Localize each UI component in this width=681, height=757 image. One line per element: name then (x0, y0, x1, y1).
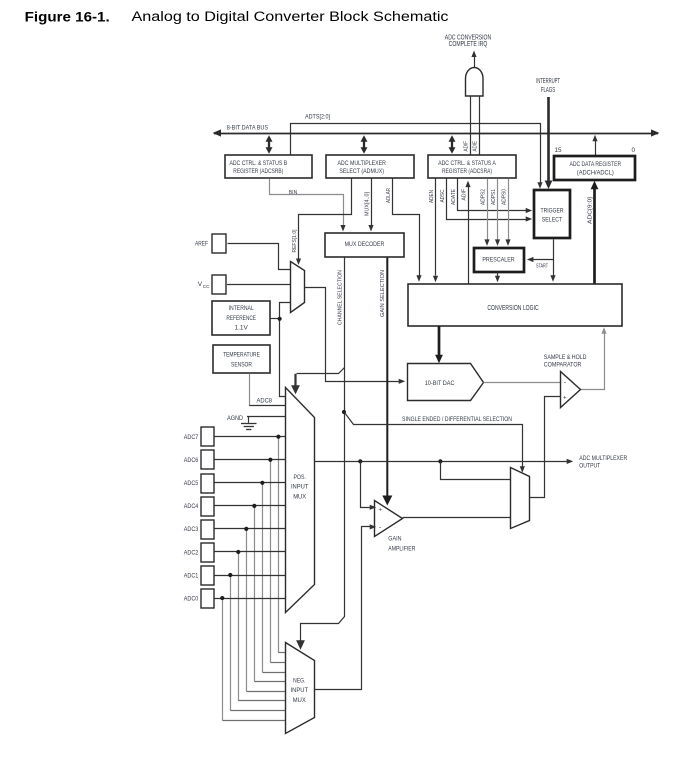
svg-text:MUX DECODER: MUX DECODER (345, 241, 385, 248)
svg-text:ADC DATA REGISTER: ADC DATA REGISTER (570, 161, 622, 168)
svg-text:ADC1: ADC1 (184, 572, 199, 579)
svg-text:MUX: MUX (293, 697, 307, 704)
svg-text:ADC8: ADC8 (257, 397, 273, 404)
svg-text:TEMPERATURE: TEMPERATURE (223, 351, 260, 358)
svg-text:AREF: AREF (195, 241, 208, 248)
svg-text:SELECT (ADMUX): SELECT (ADMUX) (339, 168, 384, 175)
svg-text:ADPS1: ADPS1 (491, 189, 497, 205)
svg-text:ADLAR: ADLAR (386, 188, 392, 203)
svg-text:REGISTER (ADCSRB): REGISTER (ADCSRB) (233, 168, 283, 175)
svg-text:INTERRUPT: INTERRUPT (536, 78, 560, 85)
svg-text:ADSC: ADSC (440, 189, 446, 202)
svg-text:(ADCH/ADCL): (ADCH/ADCL) (577, 170, 614, 177)
svg-text:REFS[1:0]: REFS[1:0] (292, 229, 298, 253)
svg-text:1.1V: 1.1V (235, 324, 249, 331)
svg-text:MUX: MUX (293, 493, 307, 500)
svg-text:Figure 16-1.: Figure 16-1. (25, 9, 110, 24)
svg-text:ADIE: ADIE (473, 141, 479, 152)
svg-text:POS.: POS. (293, 474, 306, 481)
svg-text:OUTPUT: OUTPUT (579, 463, 600, 470)
svg-text:ADIF: ADIF (462, 189, 468, 201)
svg-text:ADC5: ADC5 (184, 480, 199, 487)
svg-text:+: + (563, 394, 567, 401)
svg-text:ADEN: ADEN (429, 190, 435, 203)
svg-text:CHANNEL SELECTION: CHANNEL SELECTION (338, 270, 344, 325)
svg-text:ADATE: ADATE (451, 189, 457, 205)
svg-text:ADIF: ADIF (464, 141, 470, 152)
svg-text:NEG.: NEG. (293, 677, 306, 684)
svg-text:SINGLE ENDED / DIFFERENTIAL SE: SINGLE ENDED / DIFFERENTIAL SELECTION (402, 416, 512, 423)
svg-text:ADTS[2:0]: ADTS[2:0] (305, 114, 330, 121)
svg-text:SAMPLE & HOLD: SAMPLE & HOLD (544, 354, 587, 361)
svg-text:REGISTER (ADCSRA): REGISTER (ADCSRA) (442, 168, 492, 175)
svg-text:GAIN: GAIN (388, 536, 401, 543)
svg-text:ADC4: ADC4 (184, 503, 199, 510)
svg-text:ADC2: ADC2 (184, 549, 199, 556)
svg-text:ADC0: ADC0 (184, 595, 199, 602)
svg-text:ADC CTRL. & STATUS B: ADC CTRL. & STATUS B (229, 160, 287, 167)
svg-text:ADC CTRL. & STATUS A: ADC CTRL. & STATUS A (438, 160, 496, 167)
svg-text:SENSOR: SENSOR (231, 361, 252, 368)
svg-text:CONVERSION LOGIC: CONVERSION LOGIC (487, 305, 538, 312)
svg-text:AMPLIFIER: AMPLIFIER (388, 545, 415, 552)
svg-text:START: START (536, 264, 548, 270)
svg-text:COMPARATOR: COMPARATOR (544, 361, 582, 368)
svg-text:ADC MULTIPLEXER: ADC MULTIPLEXER (579, 455, 627, 462)
svg-text:INPUT: INPUT (291, 484, 309, 491)
svg-text:ADC7: ADC7 (184, 434, 199, 441)
svg-text:TRIGGER: TRIGGER (541, 207, 564, 214)
svg-text:MUX[4..0]: MUX[4..0] (365, 191, 371, 216)
svg-text:15: 15 (555, 147, 563, 154)
svg-text:ADC MULTIPLEXER: ADC MULTIPLEXER (337, 160, 386, 167)
svg-text:GAIN SELECTION: GAIN SELECTION (380, 270, 386, 317)
svg-text:REFERENCE: REFERENCE (226, 315, 256, 322)
svg-text:ADC3: ADC3 (184, 526, 199, 533)
svg-text:FLAGS: FLAGS (541, 87, 556, 94)
svg-text:CC: CC (203, 284, 210, 289)
svg-text:PRESCALER: PRESCALER (482, 257, 515, 264)
svg-text:INTERNAL: INTERNAL (229, 305, 254, 312)
svg-text:Analog to Digital Converter Bl: Analog to Digital Converter Block Schema… (132, 9, 449, 25)
svg-text:ADC6: ADC6 (184, 457, 199, 464)
svg-text:SELECT: SELECT (542, 217, 562, 224)
svg-text:10-BIT DAC: 10-BIT DAC (425, 380, 455, 387)
svg-text:0: 0 (631, 147, 635, 154)
svg-text:ADPS0: ADPS0 (502, 189, 508, 205)
svg-text:+: + (378, 507, 382, 514)
svg-text:ADC[9:0]: ADC[9:0] (588, 196, 594, 224)
svg-text:8-BIT DATA BUS: 8-BIT DATA BUS (227, 124, 268, 131)
svg-text:AGND: AGND (227, 415, 243, 422)
svg-text:ADPS2: ADPS2 (481, 189, 487, 205)
svg-text:COMPLETE IRQ: COMPLETE IRQ (449, 41, 488, 48)
svg-text:INPUT: INPUT (291, 687, 309, 694)
